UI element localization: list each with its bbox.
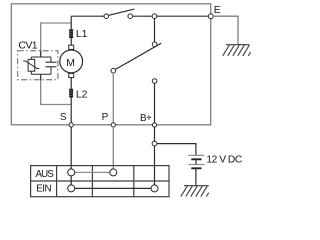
wire: S terminal to terminal block bbox=[70, 127, 72, 169]
wire: B+ branch bbox=[154, 83, 156, 123]
motor M bbox=[60, 45, 83, 77]
terminal EIN-1 bbox=[68, 185, 75, 192]
svg-text:AUS: AUS bbox=[36, 169, 55, 180]
terminal block outline bbox=[31, 166, 169, 197]
ground (battery) bbox=[181, 186, 209, 197]
wire: between AUS and EIN terminals bbox=[70, 176, 72, 185]
svg-text:L2: L2 bbox=[76, 89, 88, 100]
switch S2 pivot contact bbox=[152, 42, 157, 47]
terminal B+ bbox=[152, 123, 156, 127]
ground (top right) bbox=[223, 45, 251, 56]
svg-text:12 V DC: 12 V DC bbox=[206, 155, 241, 166]
terminal AUS-1 bbox=[68, 169, 75, 176]
wire: B+ terminal down bbox=[154, 127, 156, 141]
svg-text:S: S bbox=[60, 112, 67, 123]
wire: P terminal to terminal block (gray) bbox=[112, 127, 114, 169]
enclosure box bbox=[11, 4, 210, 125]
terminal P bbox=[111, 123, 115, 127]
capacitor (in CV1) bbox=[46, 62, 57, 67]
suppressor module CV1 (dash-dot box) bbox=[18, 51, 58, 80]
svg-text:CV1: CV1 bbox=[18, 40, 37, 51]
terminal S bbox=[69, 123, 73, 127]
wire: CV1 top jumper to motor branch bbox=[41, 23, 71, 57]
svg-text:EIN: EIN bbox=[36, 184, 51, 195]
node E bbox=[208, 14, 213, 19]
switch S2 contact (B+ side) bbox=[152, 79, 157, 84]
switch S1 contact c bbox=[152, 14, 157, 19]
wire: EIN link bbox=[75, 187, 151, 189]
switch S1 contact b bbox=[128, 14, 133, 19]
node: battery junction bbox=[152, 141, 157, 146]
terminal AUS-2 bbox=[110, 169, 117, 176]
wire: CV1 bottom return to S branch bbox=[41, 74, 71, 104]
svg-text:P: P bbox=[102, 112, 109, 123]
switch S1 blade bbox=[108, 9, 134, 15]
wire: L1 to motor bbox=[70, 38, 72, 45]
svg-text:B+: B+ bbox=[140, 113, 152, 124]
svg-text:M: M bbox=[66, 58, 75, 69]
wire: E to earth bbox=[213, 16, 238, 45]
wire: junction to terminal block bbox=[154, 146, 156, 185]
terminal block column separators bbox=[57, 166, 134, 197]
switch S2 blade bbox=[115, 43, 161, 69]
terminal block row separator bbox=[31, 180, 169, 182]
choke L1 bbox=[69, 29, 73, 38]
choke L2 bbox=[69, 89, 73, 98]
wire: junction to battery bbox=[157, 144, 196, 155]
CV1 internal node wires bbox=[31, 51, 51, 80]
svg-text:E: E bbox=[214, 5, 221, 16]
wire: battery to ground bbox=[195, 169, 197, 186]
svg-text:L1: L1 bbox=[76, 29, 88, 40]
switch S2 contact (P side) bbox=[111, 68, 116, 73]
terminal EIN-2 bbox=[151, 185, 158, 192]
wire: motor to L2 bbox=[70, 78, 72, 89]
wire: switch S2 common from S1 bbox=[154, 19, 156, 42]
wire: L2 to terminal S bbox=[70, 98, 72, 123]
battery 12 V DC bbox=[188, 155, 204, 168]
wire: P branch (gray) bbox=[112, 73, 114, 123]
varistor (in CV1) bbox=[28, 59, 35, 71]
switch S1 contact a bbox=[104, 14, 109, 19]
wire: AUS link (gray) bbox=[75, 171, 110, 173]
wire: motor branch top bbox=[70, 16, 72, 29]
switch S1 line segments (top) bbox=[71, 15, 208, 17]
